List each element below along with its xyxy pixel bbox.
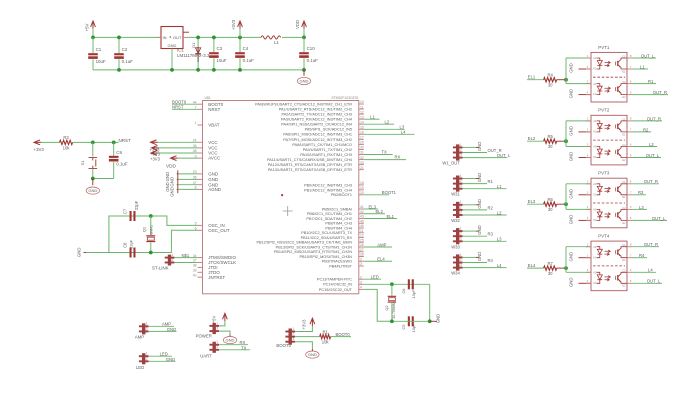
svg-text:0.1uF: 0.1uF — [307, 58, 319, 63]
svg-text:7: 7 — [630, 191, 632, 195]
svg-text:4: 4 — [587, 153, 589, 157]
svg-text:PB15/SPI2_MOSI/TIM1_CH3N: PB15/SPI2_MOSI/TIM1_CH3N — [299, 255, 352, 259]
svg-text:AMP: AMP — [377, 242, 386, 247]
svg-text:10pF: 10pF — [411, 323, 416, 332]
PVT3 arrows half1 — [605, 187, 611, 193]
wire feed PVT4 — [565, 247, 567, 273]
MCU pin VCC 36 — [198, 147, 203, 149]
net OUT_L wire PVT1 — [632, 57, 656, 59]
net OUT_L wire PVT2 — [632, 157, 661, 159]
MCU pin GND 47 — [198, 184, 203, 186]
svg-text:8: 8 — [630, 117, 632, 121]
svg-text:PVT1: PVT1 — [598, 45, 610, 50]
ground bar left — [177, 170, 179, 193]
connector W31 — [456, 176, 459, 192]
svg-text:2: 2 — [460, 179, 462, 183]
capacitor C5 — [408, 316, 410, 326]
PVT4 pin 1 — [586, 246, 591, 248]
svg-text:VDD: VDD — [166, 163, 177, 168]
svg-text:A2: A2 — [593, 271, 597, 275]
connector UART — [213, 342, 216, 353]
svg-text:U$1: U$1 — [205, 96, 211, 100]
svg-text:K1: K1 — [593, 255, 597, 259]
svg-text:D1: D1 — [191, 42, 196, 48]
svg-text:PB3/TRACESWO: PB3/TRACESWO — [322, 260, 352, 264]
wire R3 to NRST label — [73, 141, 119, 143]
MCU pin JTMS/SWDIO — [198, 257, 203, 259]
MCU pin PA12 — [359, 164, 364, 166]
svg-text:W1_OUT: W1_OUT — [442, 161, 460, 166]
ground symbol GND top right — [303, 70, 305, 76]
svg-text:VBAT: VBAT — [208, 123, 219, 128]
MCU pin PA3 — [359, 118, 364, 120]
wire right vertical Q2 — [429, 284, 431, 321]
capacitor C1 — [92, 37, 94, 53]
svg-text:PB10/I2C2_SCL/USART3_TX: PB10/I2C2_SCL/USART3_TX — [301, 231, 352, 235]
PVT3 phototransistor half2 — [617, 212, 619, 217]
PVT1 arrows half1 — [605, 61, 611, 67]
svg-text:40: 40 — [193, 273, 197, 277]
net RX wire — [364, 159, 406, 161]
IC1 NC OUT pin stub — [183, 31, 189, 33]
PVT4 pin 2 — [586, 257, 591, 259]
MCU pin JNTRST — [198, 276, 203, 278]
svg-text:3: 3 — [587, 142, 589, 146]
svg-text:PA1/USART2_RTS/ADC12_IN1/TIM2_: PA1/USART2_RTS/ADC12_IN1/TIM2_CH2 — [279, 107, 352, 111]
svg-text:R1: R1 — [488, 179, 494, 184]
net OUT_R wire PVT4 — [632, 246, 659, 248]
ground AGND — [177, 188, 198, 190]
svg-text:N$1: N$1 — [182, 253, 190, 258]
svg-text:GND: GND — [569, 278, 574, 288]
svg-text:PA4/SPI1_NSS/USART2_CK/ADC12_I: PA4/SPI1_NSS/USART2_CK/ADC12_IN4 — [281, 123, 352, 127]
svg-text:LM1117MPX-3.3: LM1117MPX-3.3 — [177, 53, 210, 58]
svg-text:OUT_L: OUT_L — [646, 153, 660, 158]
svg-text:2: 2 — [216, 327, 218, 331]
net TX wire — [364, 154, 393, 156]
svg-text:PB13/SPI2_SCK/USART3_CTS/TIM1_: PB13/SPI2_SCK/USART3_CTS/TIM1_CH1N — [276, 245, 353, 249]
svg-text:GND: GND — [88, 188, 97, 193]
resistor R3 — [60, 140, 73, 144]
svg-text:PB12/SPI2_NSS/I2C2_SMBAI/USART: PB12/SPI2_NSS/I2C2_SMBAI/USART3_CK/TIM1_… — [256, 241, 352, 245]
svg-text:C7: C7 — [123, 208, 128, 214]
capacitor C6 — [408, 279, 410, 289]
svg-text:E1: E1 — [622, 258, 626, 262]
svg-text:7: 7 — [630, 128, 632, 132]
PVT2 right pin 6 — [627, 146, 632, 148]
svg-text:JNTRST: JNTRST — [208, 275, 225, 280]
wire +5V rail to IC1 IN — [93, 36, 161, 38]
svg-text:3: 3 — [587, 268, 589, 272]
svg-text:S1: S1 — [80, 160, 85, 166]
svg-text:10uF: 10uF — [96, 59, 106, 64]
svg-text:32: 32 — [360, 156, 364, 160]
svg-text:39: 39 — [193, 269, 197, 273]
svg-text:6: 6 — [630, 268, 632, 272]
PVT2 LED half1 — [597, 121, 603, 132]
IC1 IN pin stub — [157, 36, 161, 38]
svg-text:BOOT1: BOOT1 — [382, 190, 397, 195]
svg-text:R4: R4 — [639, 253, 645, 258]
svg-text:45: 45 — [360, 219, 364, 223]
PVT1 right pin 5 — [627, 94, 632, 96]
svg-text:Q2: Q2 — [384, 305, 389, 310]
svg-text:W31: W31 — [451, 192, 460, 197]
svg-text:C1: C1 — [622, 243, 626, 247]
capacitor C7 — [130, 211, 132, 221]
PVT1 pin 2 — [586, 68, 591, 70]
svg-text:PB14/SPI2_MISO/USART3_RTS/TIM1: PB14/SPI2_MISO/USART3_RTS/TIM1_CH2N — [274, 250, 352, 254]
svg-text:AGND: AGND — [208, 187, 221, 192]
connector W34 — [456, 254, 459, 270]
svg-text:PA2/USART2_TX/ADC12_IN2/TIM2_C: PA2/USART2_TX/ADC12_IN2/TIM2_CH3 — [281, 113, 352, 117]
svg-text:+3V3: +3V3 — [302, 319, 307, 330]
svg-text:PA9/USART1_TX/TIM1_CH2: PA9/USART1_TX/TIM1_CH2 — [303, 148, 352, 152]
svg-text:R1: R1 — [322, 329, 328, 334]
svg-text:C4: C4 — [243, 46, 249, 51]
MCU pin PA7 — [359, 138, 364, 140]
crystal Q2 32.768kHz — [391, 284, 393, 295]
wire SWCLK — [175, 262, 198, 264]
PVT2 arrows half2 — [605, 150, 611, 156]
svg-text:17: 17 — [360, 136, 364, 140]
MCU pin PB5 — [359, 208, 364, 210]
MCU pin VBAT — [198, 124, 203, 126]
svg-text:PB8/TIM4_CH3: PB8/TIM4_CH3 — [325, 222, 352, 226]
svg-text:1: 1 — [587, 117, 589, 121]
svg-text:3: 3 — [460, 263, 462, 267]
svg-text:RX: RX — [395, 155, 401, 160]
MCU pin PB12 — [359, 241, 364, 243]
MCU pin JTDI — [198, 266, 203, 268]
PVT2 phototransistor half2 — [617, 149, 619, 154]
PVT1 right pin 6 — [627, 83, 632, 85]
MCU pin PB4 — [359, 265, 364, 267]
svg-text:E2: E2 — [622, 158, 626, 162]
svg-text:L3: L3 — [497, 237, 502, 242]
svg-text:IN: IN — [163, 35, 167, 40]
svg-text:W32: W32 — [451, 218, 460, 223]
svg-text:PC15/OSC32_OUT: PC15/OSC32_OUT — [319, 288, 353, 292]
svg-text:TX: TX — [382, 150, 388, 155]
MCU pin PB13 — [359, 246, 364, 248]
svg-text:2: 2 — [460, 148, 462, 152]
svg-text:L4: L4 — [401, 130, 406, 135]
svg-text:4: 4 — [587, 90, 589, 94]
svg-text:PB5/I2C1_SMBAI: PB5/I2C1_SMBAI — [322, 207, 352, 211]
svg-text:46: 46 — [360, 224, 364, 228]
MCU pin PB7 — [359, 218, 364, 220]
svg-text:OUT_L: OUT_L — [652, 216, 666, 221]
svg-text:C10: C10 — [307, 46, 316, 51]
svg-text:2: 2 — [360, 275, 362, 279]
PVT2 pin 3 — [586, 146, 591, 148]
svg-text:EL2: EL2 — [376, 209, 384, 214]
capacitor C8 — [130, 248, 132, 258]
svg-text:GND: GND — [226, 338, 235, 343]
svg-text:+5V: +5V — [212, 316, 217, 324]
svg-text:EL3: EL3 — [528, 199, 536, 204]
diode D1 — [197, 37, 199, 47]
svg-text:L4: L4 — [497, 263, 502, 268]
ground rail — [93, 69, 304, 71]
svg-text:R7: R7 — [547, 261, 553, 266]
PVT2 LED half2 — [597, 147, 603, 158]
svg-text:2: 2 — [146, 357, 148, 361]
svg-text:L2: L2 — [385, 119, 390, 124]
net LED wire bottom — [149, 355, 172, 357]
net R2 wire PVT2 — [632, 131, 651, 133]
ground PVT1 pin2 — [579, 68, 592, 70]
PVT3 LED half2 — [597, 209, 603, 220]
svg-text:LED: LED — [136, 365, 144, 370]
svg-text:+3V3: +3V3 — [150, 156, 161, 161]
supply +5V — [91, 21, 96, 29]
svg-text:2: 2 — [292, 332, 294, 336]
net RX wire bottom — [219, 344, 248, 346]
svg-text:1: 1 — [460, 200, 462, 204]
wire Q2 bottom — [392, 320, 430, 322]
svg-text:4: 4 — [587, 279, 589, 283]
svg-text:37: 37 — [193, 259, 197, 263]
net OUT_R wire PVT1 — [632, 94, 668, 96]
svg-text:+3V3: +3V3 — [34, 147, 45, 152]
svg-text:GND: GND — [77, 248, 82, 258]
svg-text:1: 1 — [216, 340, 218, 344]
wire OSC32_OUT — [364, 289, 392, 321]
svg-text:R3: R3 — [488, 232, 494, 237]
connector AMP — [142, 323, 145, 334]
MCU pin PA8 — [359, 143, 364, 145]
svg-text:E2: E2 — [622, 221, 626, 225]
svg-text:R2: R2 — [643, 127, 649, 132]
MCU pin AVCC — [198, 157, 203, 159]
svg-text:C5: C5 — [401, 325, 406, 330]
MCU pin PC14 — [359, 283, 364, 285]
net L1 wire — [364, 118, 380, 120]
svg-text:GND: GND — [569, 63, 574, 73]
svg-text:EL2: EL2 — [528, 136, 536, 141]
wire BOOT0 to +3V3 — [295, 326, 312, 332]
svg-text:GND: GND — [167, 327, 176, 332]
svg-text:3: 3 — [460, 210, 462, 214]
svg-text:16: 16 — [360, 131, 364, 135]
svg-text:30: 30 — [548, 207, 553, 212]
svg-text:PB11/I2C2_SDA/USART3_RX: PB11/I2C2_SDA/USART3_RX — [301, 236, 353, 240]
svg-text:34: 34 — [193, 254, 197, 258]
svg-text:GND: GND — [569, 89, 574, 99]
svg-text:22pF: 22pF — [134, 200, 139, 210]
svg-text:PB9/TIM4_CH4: PB9/TIM4_CH4 — [325, 226, 352, 230]
svg-text:30: 30 — [548, 83, 553, 88]
svg-text:L1: L1 — [497, 184, 502, 189]
PVT3 LED half1 — [597, 184, 603, 195]
MCU pin PB0 — [359, 184, 364, 186]
svg-text:PC13/TAMPER-RTC: PC13/TAMPER-RTC — [317, 278, 352, 282]
MCU pin PC15 — [359, 288, 364, 290]
svg-text:1: 1 — [460, 227, 462, 231]
svg-text:A2: A2 — [593, 208, 597, 212]
net OUT_L wire PVT3 — [632, 219, 667, 221]
connector BOOT0 — [289, 329, 292, 345]
svg-text:0.1uF: 0.1uF — [243, 58, 255, 63]
svg-text:42: 42 — [360, 210, 364, 214]
svg-text:C1: C1 — [96, 47, 102, 52]
svg-text:+5V: +5V — [85, 23, 90, 31]
IC1 GND pin wire — [171, 49, 173, 70]
PVT4 right pin 5 — [627, 282, 632, 284]
MCU pin PB6 — [359, 213, 364, 215]
MCU pin PB9 — [359, 227, 364, 229]
svg-text:PA0(WKUP)/USART2_CTS/ADC12_IN0: PA0(WKUP)/USART2_CTS/ADC12_IN0/TIM2_CH1_… — [255, 102, 352, 106]
capacitor C4 — [239, 37, 241, 52]
net L2 wire — [364, 123, 394, 125]
svg-text:OUT: OUT — [173, 35, 182, 40]
wire crystal top — [109, 216, 198, 253]
wire crystal bottom — [86, 230, 197, 252]
ground symbol POWER — [229, 335, 231, 337]
svg-text:22pF: 22pF — [129, 239, 133, 248]
net TX wire bottom — [219, 349, 250, 351]
svg-text:ST-LINK: ST-LINK — [152, 266, 169, 271]
connector ST-LINK — [168, 255, 171, 266]
svg-text:28: 28 — [360, 253, 364, 257]
svg-text:0.1uF: 0.1uF — [122, 59, 134, 64]
svg-text:2: 2 — [146, 327, 148, 331]
svg-text:GND: GND — [308, 352, 317, 357]
svg-text:R4: R4 — [547, 73, 553, 78]
svg-text:C9: C9 — [116, 150, 122, 155]
svg-text:UART: UART — [200, 354, 212, 359]
MCU pin PA4 — [359, 123, 364, 125]
svg-text:3: 3 — [460, 153, 462, 157]
svg-text:A2: A2 — [593, 82, 597, 86]
ground PVT3 pin4 — [579, 219, 592, 221]
svg-text:PA11/USART1_CTS/CANRX/USB_DM/T: PA11/USART1_CTS/CANRX/USB_DM/TIM1_CH4 — [267, 158, 352, 162]
ground PVT4 pin2 — [579, 257, 592, 259]
svg-text:1: 1 — [146, 322, 148, 326]
MCU pin AGND — [198, 188, 203, 190]
svg-text:GND: GND — [300, 79, 309, 84]
svg-text:C1: C1 — [622, 180, 626, 184]
svg-text:10pF: 10pF — [411, 289, 416, 298]
svg-text:C2: C2 — [122, 47, 128, 52]
wire N$1 SWDIO — [175, 257, 198, 259]
wire BOOT0 to R1 — [295, 336, 320, 338]
svg-text:2: 2 — [460, 258, 462, 262]
svg-text:PA3/USART2_RX/ADC12_IN3/TIM2_C: PA3/USART2_RX/ADC12_IN3/TIM2_CH4 — [281, 118, 352, 122]
svg-text:C2: C2 — [622, 269, 626, 273]
net R3 wire PVT3 — [632, 194, 646, 196]
svg-text:K2: K2 — [593, 92, 597, 96]
svg-text:30: 30 — [360, 146, 364, 150]
ground GND 23 — [177, 173, 198, 175]
svg-text:AMP: AMP — [135, 335, 144, 340]
svg-text:5: 5 — [195, 222, 197, 226]
svg-text:NRST: NRST — [172, 105, 184, 110]
svg-text:GND: GND — [569, 152, 574, 162]
svg-text:3: 3 — [587, 79, 589, 83]
svg-text:A1: A1 — [593, 182, 597, 186]
MCU pin GND 35 — [198, 178, 203, 180]
ground PVT2 pin2 — [579, 131, 592, 133]
PVT2 pin 2 — [586, 131, 591, 133]
svg-text:30: 30 — [548, 271, 553, 276]
MCU pin JTCK/SWCLK — [198, 262, 203, 264]
svg-text:E2: E2 — [622, 284, 626, 288]
svg-text:2: 2 — [587, 65, 589, 69]
wire to R3 — [41, 141, 60, 143]
svg-text:GND: GND — [169, 187, 174, 197]
MCU pin PC13 — [359, 278, 364, 280]
svg-text:12: 12 — [360, 110, 364, 114]
svg-text:OSC_OUT: OSC_OUT — [208, 228, 230, 233]
svg-text:2: 2 — [460, 205, 462, 209]
svg-text:33: 33 — [360, 161, 364, 165]
MCU pin PB8 — [359, 222, 364, 224]
ground PVT4 pin4 — [579, 282, 592, 284]
capacitor C3 — [213, 37, 215, 52]
svg-text:E1: E1 — [622, 69, 626, 73]
net L4 wire PVT4 — [632, 271, 656, 273]
svg-text:10: 10 — [360, 100, 364, 104]
net label BOOT0 right — [331, 336, 351, 338]
wire POWER to +5V — [219, 320, 225, 326]
capacitor C10 — [303, 37, 305, 52]
PVT1 phototransistor half1 — [617, 61, 619, 66]
PVT1 right pin 7 — [627, 68, 632, 70]
net L1 wire PVT1 — [632, 68, 648, 70]
svg-text:L1: L1 — [370, 114, 375, 119]
svg-text:EL4: EL4 — [377, 257, 385, 262]
wire L1 to VDD node — [282, 36, 304, 38]
MCU pin PA0(WKUP) — [359, 103, 364, 105]
svg-text:PVT2: PVT2 — [598, 108, 610, 113]
svg-text:GND: GND — [208, 172, 218, 177]
svg-text:GND: GND — [166, 357, 175, 362]
svg-text:2: 2 — [216, 345, 218, 349]
svg-text:12: 12 — [360, 234, 364, 238]
svg-text:PA12/USART1_RTS/CANTX/USB_DP/T: PA12/USART1_RTS/CANTX/USB_DP/TIM1_ETR — [268, 163, 352, 167]
net L3 wire — [364, 128, 405, 130]
svg-text:27: 27 — [360, 248, 364, 252]
svg-text:R3: R3 — [63, 135, 69, 140]
svg-text:A1: A1 — [593, 119, 597, 123]
svg-text:R2: R2 — [488, 205, 494, 210]
MCU pin PB15 — [359, 256, 364, 258]
svg-text:C2: C2 — [622, 80, 626, 84]
supply +3V3 VCC36 — [159, 147, 198, 149]
wire S1/C9 bottom — [93, 178, 114, 180]
connector W32 — [456, 202, 459, 218]
svg-text:TX: TX — [241, 345, 247, 350]
svg-text:GND: GND — [569, 215, 574, 225]
svg-text:EL1: EL1 — [387, 214, 395, 219]
svg-text:GND: GND — [436, 314, 441, 324]
PVT3 pin 4 — [586, 219, 591, 221]
capacitor C2 — [118, 37, 120, 53]
svg-text:5: 5 — [630, 279, 632, 283]
PVT3 right pin 5 — [627, 219, 632, 221]
svg-text:21: 21 — [360, 166, 364, 170]
net OUT_L wire PVT4 — [632, 282, 662, 284]
svg-text:EL1: EL1 — [528, 75, 536, 80]
svg-text:3: 3 — [460, 184, 462, 188]
crystal Q1 8MHz — [150, 216, 152, 235]
net OUT_R wire PVT3 — [632, 183, 659, 185]
MCU pin NRST — [198, 108, 203, 110]
svg-text:3: 3 — [360, 262, 362, 266]
